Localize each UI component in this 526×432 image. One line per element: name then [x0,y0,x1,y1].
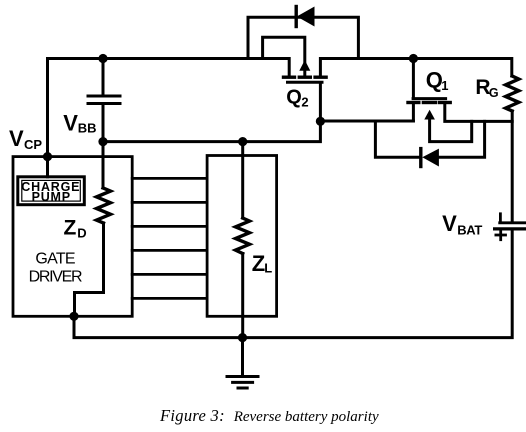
label Q2 [286,87,308,110]
resistor ZL zigzag [236,218,250,254]
transistor Q2 body arrow [299,60,310,71]
wire node to Q1 source [320,120,413,123]
svg-text:Reverse battery polarity: Reverse battery polarity [233,409,379,425]
wire Q2 body loop [263,37,305,61]
transistor Q2 body stub [303,71,306,78]
svg-text:2: 2 [301,94,308,109]
label ZL [252,251,272,276]
svg-text:DRIVER: DRIVER [29,269,82,286]
wire ground stem [241,338,244,377]
lower diode D2 triangle [422,149,439,167]
charge pump lead [46,157,49,177]
wire Q1 body loop [430,119,472,142]
label Q1 [426,67,449,93]
label VCP [9,126,42,152]
transistor Q1 gate line [413,97,446,100]
svg-text:BB: BB [78,121,97,136]
node dot VBB ZL [238,137,247,146]
caption Figure 3 [159,406,379,425]
wire Q1 drain to RG bottom [445,104,512,122]
charge pump box inner [22,180,81,201]
lower diode D2 cathode bar [419,149,422,167]
svg-text:Figure 3:: Figure 3: [159,406,225,425]
wire lower diode right branch [438,121,484,157]
node dot ground [238,333,247,342]
resistor RG zigzag [506,76,519,111]
wire ZD top lead [102,142,105,188]
wire Q2 gate to node [319,84,322,122]
wire ZL top lead [241,142,244,218]
wire top diode loop [248,17,358,58]
svg-text:D: D [77,226,86,241]
top diode D1 triangle [297,7,315,27]
svg-text:Q: Q [286,87,302,109]
wire RG bottom lead to battery [511,111,514,222]
svg-text:G: G [489,86,499,100]
top diode D1 cathode bar [295,7,298,27]
ladder wire 5 [132,273,207,276]
battery VBAT top plate [500,221,525,224]
charge pump box outer [18,177,85,205]
wire capacitor bottom lead [102,104,105,142]
transistor Q2 channel bars [284,75,327,78]
resistor ZD zigzag [97,188,111,223]
svg-text:Z: Z [64,217,77,240]
label VBAT [442,211,482,237]
node dot Q2 gate [316,117,325,126]
node dot top bus right [409,54,418,63]
transistor Q1 channel bars [408,101,450,104]
ladder wire 6 [132,297,207,300]
node dot top bus left [98,54,107,63]
battery VBAT bottom plate [495,227,526,230]
wire lower diode left branch [375,121,419,157]
wire VCP left vertical and top bus left segment [48,59,290,157]
gate driver box [13,157,132,317]
svg-text:1: 1 [441,78,448,93]
node dot VCP [43,152,52,161]
wire ZL bottom lead [241,254,244,338]
svg-text:GATE: GATE [35,251,74,268]
transistor Q2 gate line [288,81,323,84]
label ZD [64,217,87,241]
capacitor CBB top plate [88,95,120,98]
node dot gate driver bottom [69,312,78,321]
ground symbol [227,377,258,389]
svg-text:V: V [63,111,78,136]
svg-text:PUMP: PUMP [32,190,71,204]
svg-text:BAT: BAT [457,223,482,238]
label RG [475,76,498,100]
battery minus tick [499,214,502,221]
load ZL box [207,156,277,317]
wire Q1 gate riser [412,59,415,98]
capacitor CBB bottom plate [88,102,120,105]
svg-text:L: L [264,261,272,276]
svg-text:V: V [442,211,457,236]
battery plus sign [496,230,506,239]
wire VBB bus [103,121,320,141]
node dot VBB left [98,137,107,146]
ladder wire 4 [132,249,207,252]
transistor Q1 body arrow [424,110,435,120]
wire Q1 source stub [412,104,415,121]
svg-text:V: V [9,126,24,151]
wire battery to bottom bus [74,230,512,338]
label VBB [63,111,96,136]
wire capacitor top lead [102,59,105,97]
wire top bus right segment to RG [320,59,511,77]
ladder wire 2 [132,201,207,204]
svg-text:CP: CP [24,137,42,152]
wire ZD bottom lead [75,223,104,316]
label CHARGE PUMP [21,180,80,204]
ladder wire 3 [132,225,207,228]
ladder wire 1 [132,177,207,180]
label GATE DRIVER [29,251,82,286]
